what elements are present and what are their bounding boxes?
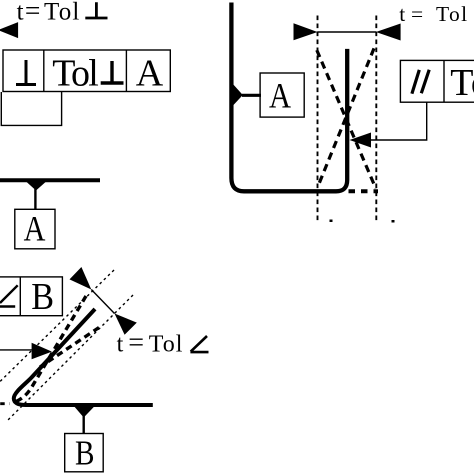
svg-text:t: t (117, 332, 124, 358)
svg-text:Tol: Tol (52, 52, 98, 94)
svg-text:A: A (269, 76, 291, 116)
svg-text:A: A (136, 52, 164, 94)
svg-text:=: = (25, 0, 41, 25)
svg-text:Tol: Tol (44, 0, 81, 25)
svg-text:Tol: Tol (436, 2, 469, 26)
svg-text:B: B (75, 433, 95, 472)
svg-text:A: A (24, 208, 46, 248)
svg-text:B: B (31, 276, 54, 318)
svg-text:=: = (128, 328, 144, 359)
svg-text:t: t (17, 0, 24, 25)
svg-text:t =: t = (399, 2, 423, 26)
svg-text:To: To (450, 62, 474, 104)
svg-text:Tol: Tol (149, 332, 184, 358)
